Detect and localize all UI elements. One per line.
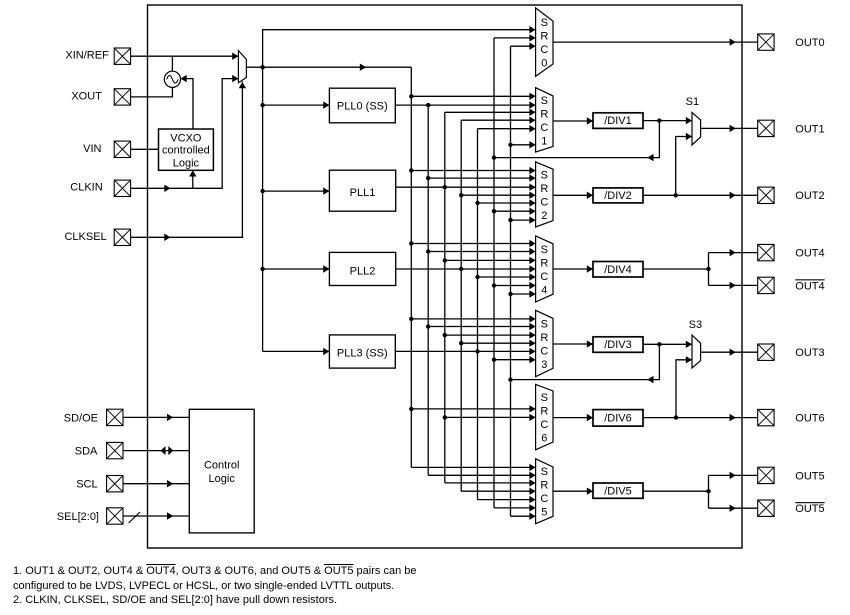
divider /DIV4 <box>593 262 643 278</box>
wire PLL3 bus vertical <box>477 129 479 500</box>
arrow into SRC3 <box>529 323 535 330</box>
junction <box>492 358 496 362</box>
wire reference bus east <box>263 66 412 68</box>
pin OUT4 <box>758 244 774 260</box>
wire PLL2 output to SRC4 <box>396 268 536 270</box>
PLL1 <box>329 170 395 211</box>
wire CLKIN to mux <box>131 79 239 189</box>
junction <box>459 267 463 271</box>
wire DIV1 feedback <box>494 121 659 158</box>
wire SRC3 to DIV3 <box>553 343 593 345</box>
arrow into SRC3 <box>529 348 535 355</box>
chip boundary <box>148 5 743 548</box>
arrow into SRC0 <box>529 43 535 50</box>
svg-text:OUT4: OUT4 <box>795 248 824 260</box>
junction <box>409 94 413 98</box>
svg-text:R: R <box>540 108 548 120</box>
arrow into SRC5 <box>529 496 535 503</box>
arrow into SRC0 <box>529 34 535 41</box>
wire into SRC2 <box>411 170 535 172</box>
junction <box>508 143 512 147</box>
arrow into SRC5 <box>529 472 535 479</box>
wire reference bus vertical <box>410 67 412 467</box>
arrow into SRC2 <box>529 216 535 223</box>
arrow into SRC2 <box>529 167 535 174</box>
wire into SRC5 <box>428 474 535 476</box>
wire DIV6 to OUT6 <box>643 417 758 419</box>
arrow into mux <box>232 75 238 82</box>
svg-text:5: 5 <box>541 507 547 519</box>
arrow on CLKIN wire <box>164 185 170 192</box>
svg-text:S1: S1 <box>686 96 699 108</box>
wire PLL0 output to SRC1 <box>395 104 535 106</box>
junction <box>657 118 661 122</box>
wire into SRC4 <box>445 259 536 261</box>
arrow on DIV1 feedback <box>647 154 653 161</box>
junction <box>443 185 447 189</box>
arrow on SEL wire <box>167 512 173 519</box>
svg-text:S: S <box>541 95 548 107</box>
wire SEL[2:0] to control logic <box>123 515 189 517</box>
svg-text:Logic: Logic <box>173 158 200 170</box>
pin SDA <box>107 442 123 458</box>
wire into SRC5 <box>411 466 535 468</box>
pin OUT0 <box>758 34 774 50</box>
svg-text:S: S <box>541 466 548 478</box>
wire PLL3 output to SRC3 <box>395 350 535 352</box>
wire to OUT5N <box>709 507 758 509</box>
wire into SRC4 <box>511 293 536 295</box>
junction <box>508 218 512 222</box>
svg-text:OUT4: OUT4 <box>795 280 824 292</box>
arrow into SRC4 <box>529 240 535 247</box>
wire DIV1 to S1 <box>643 120 692 122</box>
wire SD/OE to control logic <box>123 416 189 418</box>
junction <box>492 283 496 287</box>
arrow into SRC4 <box>529 248 535 255</box>
junction <box>508 292 512 296</box>
wire into SRC4 <box>428 251 535 253</box>
wire SDA to control logic <box>123 450 189 452</box>
wire to PLL3 input <box>263 350 330 352</box>
svg-text:PLL2: PLL2 <box>350 265 376 277</box>
wire SRC5 to DIV5 <box>553 490 593 492</box>
junction <box>459 341 463 345</box>
wire XIN/REF to oscillator <box>171 56 173 71</box>
wire DIV6 to S3 second input <box>676 360 692 418</box>
junction <box>508 377 512 381</box>
pin OUT2 <box>758 187 774 203</box>
junction <box>706 489 710 493</box>
arrow into DIV6 <box>587 414 593 421</box>
bus-width slash on SEL wire <box>129 512 140 523</box>
junction <box>426 176 430 180</box>
junction <box>475 275 479 279</box>
divider /DIV5 <box>593 483 643 498</box>
mux SRC6 <box>536 384 553 449</box>
wire into SRC5 <box>445 482 536 484</box>
wire DIV4 output <box>643 268 709 270</box>
junction <box>443 415 447 419</box>
arrow into SRC0 <box>529 26 535 33</box>
wire into SRC3 <box>411 318 535 320</box>
junction <box>443 258 447 262</box>
wire PLL1 output to SRC2 <box>396 186 536 188</box>
svg-text:R: R <box>540 257 548 269</box>
wire into SRC5 <box>478 499 536 501</box>
wire into SRC2 <box>511 219 536 221</box>
mux SRC4 <box>536 236 553 302</box>
arrow into SRC1 <box>529 109 535 116</box>
arrow into DIV1 <box>587 117 593 124</box>
wire SRC2 to DIV2 <box>553 194 593 196</box>
wire SCL to control logic <box>123 483 189 485</box>
svg-text:S: S <box>541 169 548 181</box>
svg-text:R: R <box>540 183 548 195</box>
pin SD/OE <box>107 409 123 425</box>
arrow into SRC2 <box>529 174 535 181</box>
divider /DIV6 <box>593 410 643 427</box>
pin OUT3 <box>758 344 774 360</box>
svg-text:1: 1 <box>541 135 547 147</box>
arrow into SRC2 <box>529 192 535 199</box>
junction <box>443 333 447 337</box>
arrow into mux select <box>239 82 246 88</box>
junction <box>426 249 430 253</box>
wire XOUT to oscillator <box>131 87 173 97</box>
svg-text:C: C <box>540 419 548 431</box>
svg-text:Logic: Logic <box>209 473 236 485</box>
divider /DIV2 <box>593 188 643 203</box>
wire DIV2 to OUT2 <box>643 194 758 196</box>
arrow into SRC1 <box>529 101 535 108</box>
wire mux output <box>246 66 262 68</box>
svg-text:/DIV5: /DIV5 <box>604 485 632 497</box>
wire into SRC2 <box>494 210 536 212</box>
svg-text:/DIV1: /DIV1 <box>604 115 632 127</box>
svg-text:S: S <box>541 318 548 330</box>
bidirectional arrow on SDA wire <box>161 446 166 455</box>
arrow on SCL wire <box>167 480 173 487</box>
arrow into SRC3 <box>529 315 535 322</box>
arrow on DIV3 feedback <box>647 376 653 383</box>
wire XIN/REF to mux <box>131 55 239 57</box>
arrow into SRC3 <box>529 356 535 363</box>
arrow into SRC4 <box>529 282 535 289</box>
junction <box>260 267 264 271</box>
crystal oscillator X1 <box>164 71 180 87</box>
wire to PLL2 input <box>263 268 330 270</box>
arrow into SRC1 <box>529 125 535 132</box>
svg-text:/DIV2: /DIV2 <box>604 190 632 202</box>
arrow into SRC2 <box>529 184 535 191</box>
svg-text:3: 3 <box>541 359 547 371</box>
junction <box>409 168 413 172</box>
wire SRC0 to OUT0 <box>553 41 758 43</box>
wire into SRC2 <box>428 177 535 179</box>
svg-text:CLKIN: CLKIN <box>70 182 102 194</box>
svg-text:/DIV3: /DIV3 <box>604 339 632 351</box>
svg-text:6: 6 <box>541 432 547 444</box>
svg-text:PLL1: PLL1 <box>350 187 376 199</box>
junction <box>674 415 678 419</box>
svg-text:R: R <box>540 332 548 344</box>
arrow to OUT5 <box>730 472 736 479</box>
wire DIV5 split <box>708 475 710 508</box>
svg-text:/DIV4: /DIV4 <box>604 264 632 276</box>
wire into SRC6 <box>445 416 536 418</box>
svg-text:PLL3 (SS): PLL3 (SS) <box>337 348 388 360</box>
svg-text:S3: S3 <box>689 319 702 331</box>
svg-text:OUT5: OUT5 <box>795 503 824 515</box>
svg-text:SEL[2:0]: SEL[2:0] <box>57 511 99 523</box>
svg-text:C: C <box>540 345 548 357</box>
junction <box>657 342 661 346</box>
arrow into SRC2 <box>529 199 535 206</box>
wire DIV5 output <box>643 490 709 492</box>
wire SRC6 to DIV6 <box>553 417 593 419</box>
divider /DIV3 <box>593 337 643 353</box>
svg-text:C: C <box>540 122 548 134</box>
arrow to OUT5N <box>730 505 736 512</box>
pin XOUT <box>114 89 130 105</box>
arrow into SRC5 <box>529 504 535 511</box>
junction <box>260 103 264 107</box>
junction <box>492 209 496 213</box>
arrow into S3 <box>686 356 692 363</box>
mux SRC1 <box>536 88 553 152</box>
arrow into VCXO logic <box>189 170 196 176</box>
arrow into SRC6 <box>529 405 535 412</box>
arrow into SRC5 <box>529 479 535 486</box>
arrow into S3 <box>686 341 692 348</box>
junction <box>409 317 413 321</box>
arrow into DIV3 <box>587 340 593 347</box>
wire S3 to OUT3 <box>701 351 758 353</box>
svg-text:OUT0: OUT0 <box>795 37 824 49</box>
wire SRC1 to DIV1 <box>553 120 593 122</box>
junction <box>459 193 463 197</box>
wire into SRC1 <box>411 95 535 97</box>
arrow into DIV2 <box>587 192 593 199</box>
PLL3 (SS) <box>329 335 395 368</box>
mux reference select <box>238 51 246 83</box>
junction <box>475 201 479 205</box>
svg-text:2: 2 <box>541 210 547 222</box>
wire DIV4 split <box>708 253 710 286</box>
svg-text:R: R <box>540 405 548 417</box>
wire PLL2 bus vertical <box>460 120 462 491</box>
pin OUT4N <box>758 277 774 293</box>
wire CLKIN to VCXO logic <box>192 170 194 188</box>
arrow to OUT4N <box>730 282 736 289</box>
arrow into SRC5 <box>529 513 535 520</box>
pin OUT1 <box>758 120 774 136</box>
arrow on CLKSEL wire <box>164 234 170 241</box>
divider /DIV1 <box>593 113 643 129</box>
arrow into PLL1 <box>323 187 329 194</box>
pin VIN <box>114 141 130 157</box>
arrow into SRC4 <box>529 265 535 272</box>
wire into SRC1 <box>511 144 536 146</box>
wire into SRC5 <box>511 515 536 517</box>
wire into SRC3 <box>494 359 536 361</box>
wire to PLL0 input <box>263 104 330 106</box>
junction <box>674 193 678 197</box>
wire VIN to VCXO logic <box>131 148 159 150</box>
svg-text:4: 4 <box>541 284 547 296</box>
wire PLL1 bus vertical <box>444 112 446 483</box>
svg-text:OUT2: OUT2 <box>795 190 824 202</box>
arrow into SRC6 <box>529 414 535 421</box>
svg-text:OUT5: OUT5 <box>795 470 824 482</box>
mux SRC0 <box>536 8 553 76</box>
wire into SRC3 <box>428 326 535 328</box>
svg-text:PLL0 (SS): PLL0 (SS) <box>337 100 388 112</box>
svg-text:VCXO: VCXO <box>170 133 202 145</box>
pin SEL[2:0] <box>107 508 123 524</box>
svg-text:R: R <box>540 480 548 492</box>
wire into SRC5 <box>494 507 536 509</box>
wire into SRC1 <box>445 111 536 113</box>
wire into SRC3 <box>445 334 536 336</box>
pin OUT5 <box>758 467 774 483</box>
mux S3 <box>692 335 701 368</box>
svg-text:C: C <box>540 44 548 56</box>
arrow into PLL3 <box>323 348 329 355</box>
wire DIV1 feedback bus vertical <box>493 38 495 508</box>
junction <box>260 65 264 69</box>
svg-text:C: C <box>540 493 548 505</box>
junction <box>475 349 479 353</box>
wire into SRC1 <box>478 128 536 130</box>
svg-text:0: 0 <box>541 57 547 69</box>
wire into SRC4 <box>494 285 536 287</box>
wire DIV3 to S3 <box>643 343 692 345</box>
pin CLKSEL <box>114 229 130 245</box>
arrow into SRC3 <box>529 340 535 347</box>
wire VCXO logic to oscillator <box>181 79 194 129</box>
junction <box>426 324 430 328</box>
arrow on reference wire <box>360 64 366 71</box>
wire into SRC1 <box>461 119 535 121</box>
wire into SRC3 <box>461 342 535 344</box>
junction <box>426 103 430 107</box>
svg-text:OUT1: OUT1 <box>795 123 824 135</box>
wire to PLL1 input <box>263 190 330 192</box>
arrow to OUT0 <box>730 38 736 45</box>
pin CLKIN <box>114 180 130 196</box>
wire S1 to OUT1 <box>701 127 758 129</box>
svg-text:S: S <box>541 244 548 256</box>
pin OUT5N <box>758 500 774 516</box>
svg-text:/DIV6: /DIV6 <box>604 412 632 424</box>
arrow into SRC4 <box>529 273 535 280</box>
junction <box>260 189 264 193</box>
mux SRC3 <box>536 310 553 376</box>
wire into SRC2 <box>478 202 536 204</box>
arrow into SRC5 <box>529 464 535 471</box>
wire into SRC2 <box>461 194 535 196</box>
wire PLL input bus <box>262 67 264 351</box>
wire into SRC5 <box>461 490 535 492</box>
svg-text:SD/OE: SD/OE <box>64 412 98 424</box>
wire to OUT4 <box>709 252 758 254</box>
wire into SRC0 <box>494 37 536 39</box>
arrow into SRC1 <box>529 93 535 100</box>
arrow into SRC4 <box>529 257 535 264</box>
junction <box>409 241 413 245</box>
arrow into DIV4 <box>587 265 593 272</box>
junction <box>492 155 496 159</box>
mux S1 <box>692 112 701 145</box>
wire to OUT4N <box>709 284 758 286</box>
note 1 <box>13 564 416 608</box>
arrow into DIV5 <box>587 488 593 495</box>
svg-text:CLKSEL: CLKSEL <box>64 231 106 243</box>
pin OUT6 <box>758 409 774 425</box>
arrow into oscillator <box>181 75 187 82</box>
wire into SRC6 <box>411 408 535 410</box>
svg-text:R: R <box>540 30 548 42</box>
svg-text:controlled: controlled <box>162 144 210 156</box>
arrow into SRC2 <box>529 208 535 215</box>
wire reference to SRC0 <box>263 30 536 67</box>
svg-text:SDA: SDA <box>75 446 98 458</box>
arrow to OUT4 <box>730 249 736 256</box>
wire into SRC4 <box>411 243 535 245</box>
arrow into SRC1 <box>529 141 535 148</box>
PLL2 <box>329 252 395 285</box>
wire to OUT5 <box>709 474 758 476</box>
junction <box>706 267 710 271</box>
arrow into SRC1 <box>529 117 535 124</box>
wire CLKSEL to mux select <box>131 82 243 238</box>
arrow into PLL0 <box>323 101 329 108</box>
svg-text:Control: Control <box>204 459 239 471</box>
svg-text:SCL: SCL <box>76 479 97 491</box>
mux SRC5 <box>536 459 553 524</box>
svg-text:OUT3: OUT3 <box>795 347 824 359</box>
PLL0 (SS) <box>329 88 395 123</box>
wire SRC4 to DIV4 <box>553 268 593 270</box>
svg-text:XIN/REF: XIN/REF <box>65 50 109 62</box>
arrow to OUT1 <box>730 125 736 132</box>
control logic U2 <box>189 409 254 533</box>
wire PLL0 bus vertical <box>427 105 429 475</box>
wire DIV3 feedback <box>511 344 660 379</box>
wire into SRC4 <box>478 276 536 278</box>
svg-text:C: C <box>540 196 548 208</box>
arrow on SD/OE wire <box>167 414 173 421</box>
junction <box>409 407 413 411</box>
arrow into SRC4 <box>529 290 535 297</box>
arrow into S1 <box>686 117 692 124</box>
arrow into SRC5 <box>529 488 535 495</box>
arrow to OUT6 <box>730 414 736 421</box>
wire DIV3 feedback bus vertical <box>510 46 512 516</box>
arrow into PLL2 <box>323 265 329 272</box>
svg-text:C: C <box>540 271 548 283</box>
wire DIV2 to S1 second input <box>676 137 692 196</box>
arrow into mux <box>232 53 238 60</box>
svg-text:VIN: VIN <box>83 143 101 155</box>
svg-text:OUT6: OUT6 <box>795 413 824 425</box>
pin SCL <box>107 476 123 492</box>
arrow to OUT2 <box>730 192 736 199</box>
arrow to OUT3 <box>730 349 736 356</box>
svg-text:XOUT: XOUT <box>71 90 102 102</box>
